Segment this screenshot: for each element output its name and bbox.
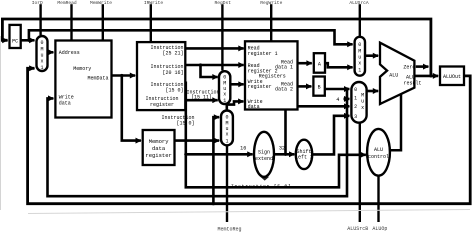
svg-text:ALUSrcB: ALUSrcB — [347, 226, 368, 232]
register B — [313, 77, 324, 96]
register file — [245, 41, 298, 110]
svg-text:ALU: ALU — [389, 73, 398, 79]
svg-text:[15 0]: [15 0] — [165, 88, 183, 94]
svg-text:MemWrite: MemWrite — [90, 0, 112, 6]
wire: MemtoReg mux output to Write data — [227, 101, 244, 110]
wire: sign extend output to shift left 2 — [274, 153, 294, 156]
svg-text:1: 1 — [40, 65, 43, 71]
svg-text:1: 1 — [354, 96, 357, 102]
svg-text:[15 11]: [15 11] — [191, 94, 212, 100]
svg-text:MemRead: MemRead — [57, 0, 77, 6]
svg-text:RegDst: RegDst — [215, 0, 232, 6]
wire: ALUSrcB mux output to ALU — [367, 90, 379, 93]
mux IorD (address mux) — [37, 36, 48, 71]
svg-text:ALUOp: ALUOp — [372, 226, 387, 232]
wire: Instruction [20-16] branch to RegDst mux input 0 — [201, 65, 218, 77]
svg-text:data: data — [59, 100, 71, 106]
svg-text:32: 32 — [279, 145, 285, 151]
svg-text:ALU: ALU — [374, 147, 383, 153]
svg-text:RegWrite: RegWrite — [260, 0, 282, 6]
junction: sign extend output branch — [284, 153, 287, 156]
wire: PC output to ALUSrcA mux input 0 (long top run) — [29, 30, 353, 44]
svg-text:1: 1 — [225, 139, 228, 145]
wire: ALUSrcA control — [359, 4, 361, 36]
junction: Instruction [15-11] branch — [184, 99, 187, 102]
svg-text:3: 3 — [354, 114, 357, 120]
junction: MemData branch — [120, 74, 123, 77]
wire: Instruction [25-21] to Read register 1 — [185, 47, 243, 50]
junction: PC output branch — [27, 39, 30, 42]
wire: RegDst mux output to Write register — [230, 83, 244, 86]
wire: RegDst control — [221, 4, 223, 70]
svg-text:[20 16]: [20 16] — [162, 70, 183, 76]
wire: ALUSrcB control to label — [359, 123, 361, 222]
svg-text:16: 16 — [240, 146, 246, 152]
svg-text:extend: extend — [255, 156, 273, 162]
mux RegDst — [219, 71, 230, 104]
wire: ALU control output to ALU — [390, 95, 401, 151]
svg-text:1: 1 — [358, 68, 361, 74]
svg-text:MemData: MemData — [87, 76, 108, 82]
wire: Read data 2 to B register — [298, 85, 312, 88]
wire: MemWrite control — [102, 4, 104, 39]
svg-text:u: u — [361, 99, 364, 105]
svg-text:A: A — [318, 61, 321, 67]
svg-text:Sign: Sign — [258, 149, 270, 155]
wire: Read data 1 to A register — [298, 62, 312, 65]
svg-text:Instruction [5 0]: Instruction [5 0] — [231, 184, 292, 190]
junction: sign extend branch — [184, 153, 187, 156]
svg-text:x: x — [358, 60, 361, 66]
svg-text:0: 0 — [358, 42, 361, 48]
wire: sign extend output to ALUSrcB mux input 2 — [286, 106, 350, 154]
sign extend unit — [254, 132, 274, 177]
svg-text:4: 4 — [336, 97, 339, 103]
svg-text:Address: Address — [59, 50, 80, 56]
svg-text:x: x — [225, 132, 228, 138]
junction: B output branch — [345, 87, 348, 90]
mux ALUSrcB — [351, 82, 366, 123]
wire: MemRead control — [70, 4, 72, 39]
junction: Instruction [20-16] branch — [199, 63, 202, 66]
wire: MDR output to MemtoReg mux input 1 — [175, 139, 220, 142]
wire: Instruction [20-16] to Read register 2 — [185, 64, 243, 67]
svg-text:left 2: left 2 — [295, 155, 313, 161]
svg-text:ALUSrcA: ALUSrcA — [349, 0, 369, 6]
wire: A register to ALUSrcA mux input 1 — [325, 63, 353, 67]
svg-text:[25 21]: [25 21] — [162, 51, 183, 57]
svg-text:Memory: Memory — [149, 138, 170, 145]
register A — [314, 53, 325, 72]
scan artifact: blob under sign extend — [260, 177, 269, 181]
wire: B register to ALUSrcB mux input 0 — [325, 88, 350, 91]
wire: shift left 2 output to ALUSrcB mux input 3 — [312, 116, 349, 155]
memory unit — [55, 41, 111, 118]
wire: B register feedback to Memory write data — [48, 89, 348, 196]
register PC — [10, 25, 21, 48]
svg-text:data: data — [248, 104, 260, 110]
wire: ALUOut feedback loop to IorD mux input 1 — [28, 68, 471, 203]
junction: feedback branch — [212, 202, 215, 205]
scan artifact: faint gray streak — [28, 210, 470, 214]
wire: MemData branch down to Memory data register — [122, 76, 141, 141]
svg-text:[15 0]: [15 0] — [176, 121, 194, 127]
svg-text:register 1: register 1 — [248, 51, 278, 57]
svg-text:0: 0 — [40, 40, 43, 46]
svg-text:register: register — [150, 102, 174, 108]
svg-text:MemtoReg: MemtoReg — [217, 226, 241, 232]
wire: Instruction [15-11] to RegDst mux input 1 — [186, 99, 218, 102]
svg-text:0: 0 — [354, 87, 357, 93]
wire: ALUOut feedback branch to MemtoReg mux input 0 — [213, 117, 219, 204]
wire: ALU result feedback to PC (top line) — [2, 19, 431, 76]
wire: ALUSrcA mux output to ALU — [365, 54, 378, 57]
svg-text:ALUOut: ALUOut — [443, 74, 461, 80]
svg-text:x: x — [361, 105, 364, 111]
junction: ALU result feedback riser — [429, 74, 432, 77]
wire: RegWrite control — [270, 4, 272, 40]
shift left 2 unit — [295, 140, 313, 169]
wire: ALUOp control to label — [377, 176, 379, 222]
svg-text:PC: PC — [12, 39, 18, 45]
svg-text:control: control — [368, 154, 389, 160]
wire: Instruction [15-0] to sign extend — [186, 153, 253, 156]
wire: MemtoReg control to label — [226, 146, 228, 223]
ALU — [380, 43, 422, 104]
svg-text:x: x — [40, 59, 43, 65]
ALU control unit — [367, 129, 390, 176]
wire: IorD mux to Memory Address — [48, 51, 54, 54]
wire: PC output to IorD mux input 0 — [21, 39, 35, 42]
wire: Instruction [15-0] trunk down and to ALU control — [185, 83, 366, 188]
svg-text:Memory: Memory — [73, 66, 91, 72]
mux MemtoReg — [221, 111, 233, 146]
svg-text:Registers: Registers — [259, 73, 286, 79]
svg-text:x: x — [223, 92, 226, 98]
memory data register — [143, 130, 175, 165]
scan artifact: left edge — [0, 36, 2, 210]
svg-text:2: 2 — [354, 104, 357, 110]
svg-text:IRWrite: IRWrite — [144, 0, 164, 6]
wire: IorD control — [39, 4, 41, 35]
svg-text:data 2: data 2 — [275, 87, 293, 93]
svg-text:register: register — [145, 152, 171, 159]
svg-text:IorD: IorD — [32, 0, 43, 6]
mux ALUSrcA — [355, 37, 365, 76]
wire: IRWrite control — [150, 4, 152, 41]
register ALUOut — [440, 67, 464, 86]
svg-text:Zero: Zero — [403, 64, 415, 70]
svg-text:register: register — [248, 84, 272, 90]
instruction register — [137, 42, 185, 110]
svg-text:1: 1 — [223, 98, 226, 104]
svg-text:B: B — [318, 85, 321, 91]
wire: constant 4 to ALUSrcB mux input 1 — [344, 98, 350, 101]
wire: MemData to Instruction register — [112, 74, 136, 77]
svg-text:data 1: data 1 — [275, 65, 293, 71]
wire: ALU result to ALUOut — [414, 75, 438, 78]
svg-text:data: data — [152, 145, 166, 152]
svg-text:result: result — [403, 80, 421, 86]
wire: Zero output — [416, 65, 429, 68]
